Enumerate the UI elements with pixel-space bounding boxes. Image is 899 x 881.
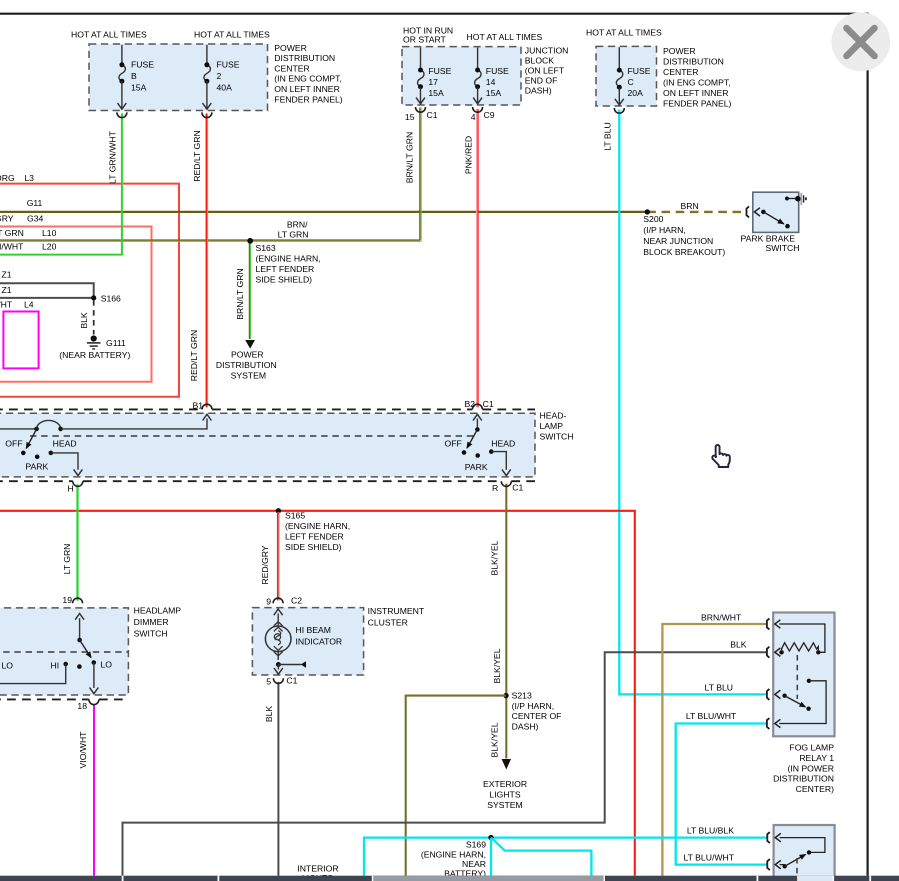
ground G111 [91, 335, 97, 341]
wire BRN/LT GRN horizontal L10 [0, 239, 420, 241]
wire LT BLU from fuse C to relay 1 [619, 110, 767, 695]
svg-text:LO: LO [101, 660, 113, 670]
svg-text:(ENGINE HARN,: (ENGINE HARN, [421, 850, 486, 860]
svg-text:(ENGINE HARN,: (ENGINE HARN, [256, 254, 321, 264]
unnamed magenta component box WHT L4 [3, 312, 38, 369]
svg-text:B2: B2 [464, 399, 475, 409]
svg-text:INTERIOR: INTERIOR [297, 864, 338, 874]
svg-text:G111: G111 [106, 338, 126, 348]
svg-text:OFF: OFF [5, 439, 22, 449]
svg-text:S165: S165 [285, 511, 305, 521]
svg-text:BLK: BLK [264, 706, 274, 723]
wire LT BLU/WHT relay1 pin4 loop to relay2 [676, 724, 767, 865]
svg-text:BLK/YEL: BLK/YEL [492, 648, 502, 683]
headlamp dimmer switch box [0, 608, 128, 695]
svg-text:DISTRIBUTION: DISTRIBUTION [274, 53, 335, 63]
svg-text:LT GRN/WHT: LT GRN/WHT [108, 130, 118, 184]
svg-text:C1: C1 [286, 676, 297, 686]
svg-text:RED/LT GRN: RED/LT GRN [189, 330, 199, 381]
wire VIO/WHT from dimmer 18 [93, 704, 95, 876]
headlamp switch right pole [476, 419, 478, 430]
svg-text:VIO/WHT: VIO/WHT [78, 731, 88, 769]
svg-text:LT BLU: LT BLU [603, 122, 613, 150]
svg-text:PARK: PARK [465, 462, 488, 472]
svg-text:HEAD: HEAD [491, 439, 515, 449]
fog lamp relay 1 box [773, 613, 834, 737]
svg-text:SYSTEM: SYSTEM [487, 800, 522, 810]
relay1 switch [807, 679, 811, 683]
wire BRN/LT GRN vertical from fuse 17 [419, 108, 421, 241]
svg-text:18: 18 [77, 701, 87, 711]
svg-text:20A: 20A [628, 88, 644, 98]
svg-text:DISTRIBUTION: DISTRIBUTION [216, 360, 277, 370]
svg-text:C2: C2 [291, 596, 302, 606]
svg-text:H: H [68, 484, 74, 494]
wire BLK/YEL branch to interior lights [406, 696, 506, 876]
wire BRN G11 solid [0, 211, 647, 213]
headlamp switch connector line top [0, 408, 535, 410]
wire BLK dashed to G111 [93, 300, 95, 335]
wire S169 branch diagonal [491, 838, 591, 876]
dimmer wiper [79, 618, 81, 640]
svg-text:FUSE: FUSE [628, 66, 651, 76]
svg-text:S200: S200 [643, 214, 663, 224]
svg-text:HEADLAMP: HEADLAMP [134, 606, 182, 616]
svg-text:ON LEFT INNER: ON LEFT INNER [663, 88, 729, 98]
wire BLK from cluster 5 [277, 682, 279, 876]
svg-text:SWITCH: SWITCH [765, 243, 799, 253]
svg-text:(IN ENG COMPT,: (IN ENG COMPT, [274, 74, 342, 84]
wire S169 branch down [490, 838, 492, 876]
arrow to exterior lights system [502, 759, 511, 770]
svg-text:DISTRIBUTION: DISTRIBUTION [773, 774, 834, 784]
svg-text:SYSTEM: SYSTEM [231, 370, 266, 380]
svg-text:HEAD-: HEAD- [540, 411, 567, 421]
svg-text:BRN/: BRN/ [287, 220, 308, 230]
svg-text:(I/P HARN,: (I/P HARN, [643, 225, 686, 235]
svg-text:C1: C1 [427, 110, 438, 120]
connector bumps under fuse boxes [117, 112, 127, 117]
svg-text:LT BLU/WHT: LT BLU/WHT [684, 853, 735, 863]
svg-text:(IN POWER: (IN POWER [788, 763, 834, 773]
svg-text:PARK BRAKE: PARK BRAKE [741, 234, 796, 244]
svg-text:SIDE SHIELD): SIDE SHIELD) [256, 275, 313, 285]
svg-text:L20: L20 [42, 242, 57, 252]
relay1 link dashed [796, 655, 798, 699]
svg-text:LT BLU: LT BLU [705, 683, 733, 693]
svg-text:HOT AT ALL TIMES: HOT AT ALL TIMES [467, 32, 543, 42]
svg-text:OFF: OFF [445, 439, 462, 449]
svg-text:L10: L10 [42, 228, 57, 238]
svg-text:(ON LEFT: (ON LEFT [525, 65, 565, 75]
wire BLK from fog lamp relay 1 [123, 652, 767, 876]
svg-text:HOT AT ALL TIMES: HOT AT ALL TIMES [586, 28, 662, 38]
wire BRN dashed to park brake switch [647, 211, 744, 213]
svg-text:RED/LT GRN: RED/LT GRN [192, 130, 202, 181]
svg-text:C: C [628, 77, 634, 87]
headlamp switch connector line bottom [0, 480, 535, 482]
svg-text:CENTER: CENTER [274, 63, 309, 73]
svg-text:BLK: BLK [79, 312, 89, 329]
fuse 2 [206, 45, 208, 65]
svg-text:BLOCK: BLOCK [525, 55, 554, 65]
svg-text:LEFT FENDER: LEFT FENDER [285, 532, 344, 542]
svg-text:NEAR JUNCTION: NEAR JUNCTION [643, 236, 713, 246]
svg-text:HOT AT ALL TIMES: HOT AT ALL TIMES [71, 30, 147, 40]
svg-text:CENTER: CENTER [663, 67, 698, 77]
fuse C [618, 47, 620, 70]
junction block box (fuse 17, fuse 14) [402, 47, 521, 105]
svg-text:LO: LO [2, 661, 14, 671]
splice S213 [503, 693, 508, 698]
svg-text:HEAD: HEAD [53, 439, 77, 449]
svg-text:EXTERIOR: EXTERIOR [483, 779, 527, 789]
svg-text:(I/P HARN,: (I/P HARN, [512, 701, 554, 711]
svg-text:9: 9 [266, 596, 271, 606]
svg-text:LEFT FENDER: LEFT FENDER [256, 264, 315, 274]
svg-text:FUSE: FUSE [428, 66, 451, 76]
svg-text:40A: 40A [217, 83, 233, 93]
park brake switch box [753, 192, 799, 232]
svg-text:INDICATOR: INDICATOR [296, 636, 343, 646]
svg-text:Z1: Z1 [2, 285, 12, 295]
svg-text:PARK: PARK [25, 462, 48, 472]
close button [831, 12, 890, 71]
svg-text:GRY: GRY [0, 214, 14, 224]
headlamp switch link dashed [30, 435, 477, 437]
svg-text:4: 4 [471, 112, 476, 122]
svg-text:C1: C1 [512, 483, 523, 493]
svg-text:19: 19 [62, 595, 72, 605]
svg-text:Z1: Z1 [2, 269, 12, 279]
svg-text:BLK/YEL: BLK/YEL [489, 540, 499, 575]
svg-text:JUNCTION: JUNCTION [525, 45, 569, 55]
relay2 pin LT BLU/WHT [767, 859, 770, 870]
svg-text:END OF: END OF [525, 75, 558, 85]
splice S165 [276, 508, 281, 513]
svg-text:S166: S166 [101, 293, 121, 303]
svg-text:17: 17 [428, 77, 438, 87]
svg-text:BRN/LT GRN: BRN/LT GRN [405, 132, 415, 183]
bottom bar [0, 876, 899, 881]
svg-text:LT GRN/WHT: LT GRN/WHT [0, 242, 24, 252]
power distribution center box 1 (fuse B, fuse 2) [89, 44, 268, 111]
svg-text:L4: L4 [24, 300, 34, 310]
svg-text:G34: G34 [27, 214, 44, 224]
svg-text:L3: L3 [24, 173, 34, 183]
svg-text:RED/GRY: RED/GRY [260, 545, 270, 584]
relay1 pin BLK [767, 647, 770, 658]
svg-text:G11: G11 [27, 198, 43, 208]
dimmer link dashed [0, 651, 128, 653]
svg-text:CENTER): CENTER) [796, 784, 834, 794]
svg-text:FUSE: FUSE [131, 60, 154, 70]
svg-text:LT BLU/BLK: LT BLU/BLK [687, 826, 734, 836]
svg-text:BLK: BLK [730, 640, 747, 650]
svg-text:SIDE SHIELD): SIDE SHIELD) [285, 542, 342, 552]
svg-text:BRN/LT GRN: BRN/LT GRN [235, 268, 245, 319]
svg-text:WHT: WHT [0, 300, 13, 310]
svg-text:B: B [131, 71, 137, 81]
relay1 pin BRN/WHT [767, 619, 770, 630]
svg-text:S213: S213 [512, 691, 532, 701]
wire Z1 lower [0, 297, 94, 299]
wire RED/LT GRN from fuse 2 to B1 [205, 114, 207, 408]
svg-text:LT GRN: LT GRN [62, 544, 72, 575]
svg-text:C9: C9 [484, 110, 495, 120]
svg-text:BLK/YEL: BLK/YEL [490, 722, 500, 757]
power distribution center box 2 (fuse C) [596, 46, 657, 106]
relay1 pin LT BLU [767, 689, 770, 700]
splice S163 [247, 238, 253, 244]
svg-text:B1: B1 [192, 401, 203, 411]
wire GRY G34 [0, 227, 152, 382]
svg-text:DISTRIBUTION: DISTRIBUTION [663, 56, 724, 66]
svg-text:HI BEAM: HI BEAM [296, 625, 331, 635]
svg-text:15A: 15A [486, 88, 502, 98]
wire Z1 upper [0, 283, 94, 298]
svg-text:15A: 15A [428, 88, 444, 98]
svg-text:S169: S169 [466, 840, 486, 850]
svg-text:FENDER PANEL): FENDER PANEL) [274, 94, 342, 104]
fog lamp relay 2 box [774, 825, 835, 881]
svg-text:(IN ENG COMPT,: (IN ENG COMPT, [663, 77, 731, 87]
park brake switch pin connector [747, 206, 750, 217]
relay2 pin LT BLU/BLK [767, 832, 770, 843]
wire RED long feed [0, 511, 635, 876]
splice S169 [488, 835, 493, 840]
dimmer connector line bottom [0, 698, 128, 700]
relay1 pin LT BLU/WHT [767, 718, 770, 729]
svg-text:BRN/WHT: BRN/WHT [701, 613, 742, 623]
svg-text:LIGHTS: LIGHTS [489, 790, 520, 800]
relay2 contact path [780, 838, 825, 853]
mouse hand cursor [712, 445, 730, 467]
svg-text:R: R [492, 483, 498, 493]
svg-text:HI: HI [51, 661, 60, 671]
splice S166 [91, 295, 96, 300]
svg-text:5: 5 [266, 676, 271, 686]
headlamp switch left pole [0, 428, 37, 430]
arrow to power distribution system [245, 340, 255, 349]
svg-text:FUSE: FUSE [217, 60, 240, 70]
svg-text:14: 14 [486, 77, 496, 87]
fuse 17 [420, 47, 422, 70]
svg-text:FENDER PANEL): FENDER PANEL) [663, 98, 731, 108]
svg-text:POWER: POWER [663, 46, 696, 56]
wire LT GRN/WHT from fuse B [0, 114, 122, 255]
headlamp switch box [0, 413, 535, 477]
svg-text:SWITCH: SWITCH [540, 432, 574, 442]
instrument cluster box [252, 608, 363, 675]
svg-text:ORG: ORG [0, 173, 15, 183]
svg-text:FOG LAMP: FOG LAMP [789, 743, 834, 753]
svg-text:OR START: OR START [403, 35, 447, 45]
svg-text:LAMP: LAMP [540, 421, 564, 431]
svg-text:2: 2 [217, 71, 222, 81]
svg-text:DASH): DASH) [525, 85, 552, 95]
relay1 coil [779, 624, 825, 652]
wire RED/GRY to cluster pin 9 [277, 512, 279, 601]
wire BRN/LT GRN branch S163 down [249, 241, 251, 339]
wire BLK/YEL R to S213 to exterior lights [505, 484, 507, 759]
svg-text:SWITCH: SWITCH [134, 628, 168, 638]
svg-text:CENTER OF: CENTER OF [512, 711, 562, 721]
fuse B [121, 45, 123, 65]
svg-text:S163: S163 [256, 243, 276, 253]
svg-text:INSTRUMENT: INSTRUMENT [368, 606, 425, 616]
svg-text:RELAY 1: RELAY 1 [799, 753, 834, 763]
svg-text:DASH): DASH) [512, 721, 539, 731]
svg-text:PNK/RED: PNK/RED [464, 136, 474, 174]
wire LT GRN headlamp H to dimmer 19 [76, 484, 78, 601]
svg-text:BRN: BRN [681, 201, 699, 211]
wire LT BLU/BLK S169 line to relay 2 [364, 838, 767, 876]
svg-text:15A: 15A [131, 83, 147, 93]
svg-text:(NEAR BATTERY): (NEAR BATTERY) [59, 350, 130, 360]
wire BRN/WHT to fog lamp relay 1 [662, 624, 766, 876]
svg-text:(ENGINE HARN,: (ENGINE HARN, [285, 521, 350, 531]
wire PNK/RED from fuse 14 to B2 [476, 109, 478, 407]
wire ORG L3 [0, 184, 179, 397]
svg-text:DIMMER: DIMMER [134, 617, 169, 627]
splice S200 [645, 209, 650, 214]
svg-text:LT GRN: LT GRN [0, 228, 24, 238]
svg-text:15: 15 [405, 112, 415, 122]
svg-text:FUSE: FUSE [486, 66, 509, 76]
svg-text:POWER: POWER [231, 350, 264, 360]
svg-text:POWER: POWER [274, 43, 307, 53]
svg-text:HOT AT ALL TIMES: HOT AT ALL TIMES [194, 30, 270, 40]
park brake switch contacts [761, 210, 766, 215]
svg-text:LT GRN: LT GRN [278, 229, 309, 239]
svg-text:BLOCK BREAKOUT): BLOCK BREAKOUT) [643, 247, 725, 257]
svg-text:CLUSTER: CLUSTER [368, 618, 408, 628]
hi beam indicator bulb [277, 614, 279, 627]
svg-text:C1: C1 [483, 399, 494, 409]
fuse 14 [477, 47, 479, 70]
svg-text:ON LEFT INNER: ON LEFT INNER [274, 84, 340, 94]
svg-text:LT BLU/WHT: LT BLU/WHT [686, 711, 737, 721]
